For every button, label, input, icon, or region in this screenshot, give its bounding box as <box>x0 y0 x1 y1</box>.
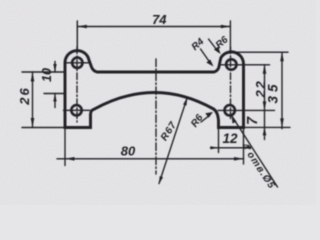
hole mid-right <box>225 105 235 115</box>
arrowhead R6 top <box>214 47 221 54</box>
arrow 35 top <box>280 52 284 61</box>
dim 12 line <box>211 147 250 149</box>
svg-text:12: 12 <box>222 131 238 146</box>
arrow 35 bottom <box>280 118 284 127</box>
arrow 7 bottom <box>263 127 267 135</box>
centerline hole2 horizontal <box>64 109 90 111</box>
centerline middle vertical <box>155 59 157 174</box>
arrow 12 left <box>211 146 219 149</box>
leader R67 <box>159 98 187 184</box>
right ext hole4 <box>218 109 275 111</box>
arrowhead note <box>232 115 237 124</box>
arrow 22 top <box>263 65 267 74</box>
leader note 4 holes <box>232 116 278 188</box>
arrowhead R6 bottom <box>205 112 213 118</box>
dim 74 line <box>77 26 230 28</box>
dim 80 line <box>57 158 244 160</box>
centerline right column vertical <box>230 47 232 121</box>
arrow 10 bottom <box>53 94 56 102</box>
arrow 22 bottom <box>263 101 267 110</box>
svg-text:35: 35 <box>266 80 281 103</box>
centerline hole1 horizontal <box>66 62 91 64</box>
arrowhead R67 <box>183 97 187 105</box>
svg-text:7: 7 <box>245 116 261 125</box>
leader R4 top <box>201 49 212 64</box>
dim 80 ext left <box>64 128 66 166</box>
right ext foot bottom <box>244 126 290 128</box>
svg-text:10: 10 <box>40 68 54 82</box>
dim 12 ext left <box>218 129 220 153</box>
arrow 80 right <box>234 157 244 161</box>
arrow 10 top <box>53 64 56 72</box>
arrow 26 top <box>31 72 35 82</box>
arrowhead R67 bottom <box>159 176 163 184</box>
dim 10 line <box>54 62 56 108</box>
arrow 26 bottom <box>31 118 35 128</box>
hole top-right <box>226 59 236 69</box>
leader R6 top <box>209 39 219 52</box>
arrowhead R4 top <box>206 60 213 67</box>
arrow 74 left <box>77 25 87 29</box>
hole top-left <box>72 58 82 68</box>
arrow 74 right <box>221 25 231 29</box>
left ext top edge <box>22 71 65 73</box>
right ext hole3 <box>220 64 270 66</box>
hole mid-left <box>71 105 81 115</box>
dim 74 extension right <box>229 21 231 52</box>
right ext lobe top <box>236 51 288 53</box>
dim 26 line <box>32 72 34 128</box>
arrow 80 left <box>65 157 75 161</box>
dim 74 extension left <box>76 21 78 50</box>
leader R6 bottom <box>201 115 210 122</box>
dim 80 ext right <box>243 128 245 164</box>
left ext foot bottom <box>22 127 65 129</box>
svg-text:80: 80 <box>121 143 136 158</box>
svg-text:74: 74 <box>152 12 167 27</box>
left ext arc apex <box>44 93 65 95</box>
centerline left column vertical <box>76 47 78 122</box>
arrow 12 right <box>244 146 252 149</box>
dim 35 line <box>281 52 283 128</box>
plate outline <box>65 51 244 128</box>
svg-text:26: 26 <box>17 86 32 105</box>
dim 22 line <box>264 65 266 111</box>
dim 7 line <box>264 110 266 139</box>
